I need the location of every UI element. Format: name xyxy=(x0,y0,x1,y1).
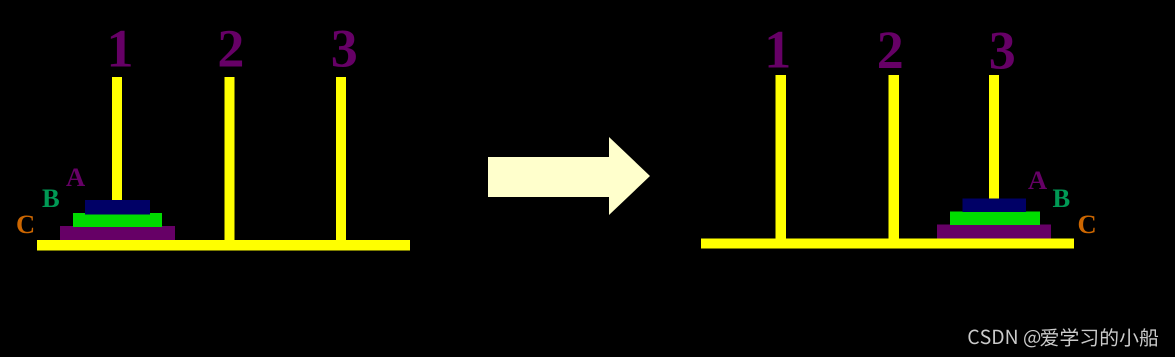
svg-text:2: 2 xyxy=(877,20,904,80)
svg-text:A: A xyxy=(66,162,85,192)
svg-text:3: 3 xyxy=(989,20,1016,80)
svg-text:3: 3 xyxy=(331,19,358,79)
svg-text:B: B xyxy=(1053,183,1071,213)
svg-text:1: 1 xyxy=(107,19,134,79)
svg-text:A: A xyxy=(1028,165,1047,195)
svg-text:B: B xyxy=(42,183,60,213)
svg-text:C: C xyxy=(1078,209,1097,239)
svg-text:C: C xyxy=(16,209,35,239)
svg-text:2: 2 xyxy=(217,19,244,79)
svg-text:1: 1 xyxy=(764,19,791,79)
